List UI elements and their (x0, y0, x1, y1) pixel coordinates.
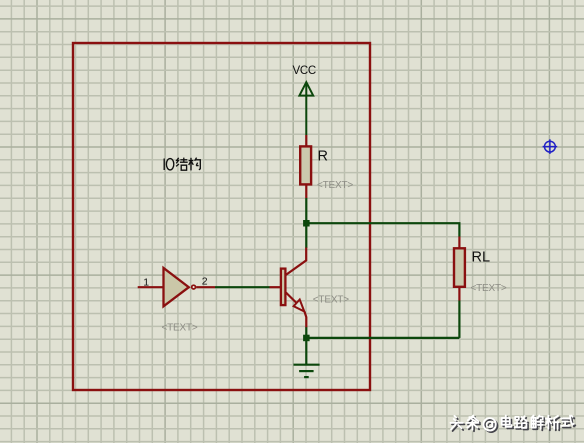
svg-text:RL: RL (472, 250, 491, 266)
svg-text:2: 2 (202, 276, 208, 288)
svg-text:<TEXT>: <TEXT> (313, 295, 349, 306)
svg-text:R: R (318, 149, 328, 165)
svg-text:1: 1 (143, 277, 149, 289)
svg-text:<TEXT>: <TEXT> (471, 283, 507, 294)
svg-text:VCC: VCC (293, 65, 316, 77)
svg-text:<TEXT>: <TEXT> (317, 180, 353, 191)
svg-text:<TEXT>: <TEXT> (162, 323, 198, 334)
